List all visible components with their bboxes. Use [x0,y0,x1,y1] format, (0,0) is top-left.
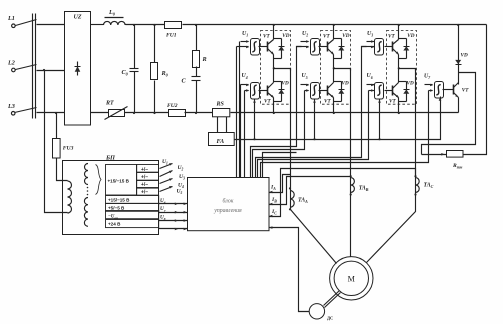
transistor VT lower leg 4 [264,69,274,113]
driver U4 [251,83,260,100]
diode VD upper leg 1 [274,33,290,59]
inductor L0 [104,9,126,25]
wire bottom rail RT to FU2 [125,112,169,114]
driver U6 input arrows [367,84,375,92]
capacitor C snubber [182,67,201,113]
junction phase node leg 2 [333,67,335,69]
protection block FA [209,133,235,146]
driver U3 [375,39,384,56]
dashed module box leg 3 [387,31,417,105]
current transformer TAC [414,175,433,196]
svg-text:TAA: TAA [298,198,308,205]
driver U5 input arrows [301,84,310,92]
driver U4 input arrows [241,84,250,92]
supply line U7 to control block [159,206,188,213]
svg-text:FU1: FU1 [166,33,177,39]
diode VD brake [455,24,468,85]
thermistor RT [105,101,128,120]
diode VD lower leg 4 [274,81,289,102]
wire brake resistor to top rail [464,25,487,155]
svg-text:+5/−5 В: +5/−5 В [108,205,125,210]
svg-text:+15/−15 В: +15/−15 В [108,198,130,203]
wire phase output leg 1 [274,69,291,71]
transformer secondary winding lower [84,198,88,227]
brace secondary group [96,165,102,195]
input terminal L1 [7,15,15,28]
PSU box -Uop [106,211,159,220]
current transformer TAA [289,187,308,210]
svg-text:TAC: TAC [424,183,434,190]
junction top rail leg 1 [273,24,275,26]
junction phase node leg 3 [398,67,400,69]
dashed module box leg 2 [321,31,351,105]
wire gate U2 staircase [251,47,302,178]
wire phase A down [290,69,292,189]
wire FA output line [235,97,441,140]
svg-text:M: M [348,274,356,283]
PSU box +24V [106,220,159,228]
wire driver U7 to gate [443,89,454,91]
wire phase output leg 3 [399,69,416,71]
junction FA line leg3 [378,138,380,140]
wire phase B to motor [350,195,352,257]
svg-text:+24 В: +24 В [108,221,121,226]
wire L3 to UZ [37,112,65,114]
svg-text:ДС: ДС [327,316,333,321]
wire phase C to motor [367,195,416,263]
fuse FU1 [165,22,182,39]
driver U7 brake [435,82,444,99]
supply line U6 to control block [159,198,188,205]
wire DS feedback to control block [269,226,310,311]
driver U6 [375,83,384,100]
shunt RS [213,102,230,117]
svg-text:FA: FA [217,138,225,145]
svg-text:+15/−15 В: +15/−15 В [108,179,130,184]
junction bottom rail leg 5 [333,112,335,114]
driver U7 input arrows [425,84,434,92]
rectifier UZ [65,12,91,126]
wire driver U5 to gate [319,90,328,92]
wire gate U1 [236,47,238,178]
dashed module box leg 1 [261,31,291,105]
svg-text:VD: VD [407,33,414,39]
driver U1 [251,39,260,56]
wire gate U7 staircase [261,91,429,178]
svg-text:VT: VT [324,98,331,104]
wire UZ minus output [91,112,109,114]
wires RS to FA [218,117,227,133]
junction FA line leg2 [313,138,315,140]
driver U3 input arrows [362,40,375,48]
wire sense IB [269,177,351,206]
wire top rail FU1 to inverter [183,24,487,26]
wire gate U6 staircase [258,91,369,178]
PSU +/- terminal boxes [137,165,159,196]
arrow FA line into driver U7 [439,98,442,101]
wire phase B down [350,69,352,177]
transistor VT lower leg 6 [389,69,399,113]
svg-text:RT: RT [105,101,114,107]
wire phase C down [415,69,417,177]
wire driver U2 to gate [319,46,328,48]
transistor VT upper leg 1 [263,25,274,69]
wire driver U5 bottom to FA line [313,99,316,140]
svg-text:+/−: +/− [141,167,148,173]
wire L1 to UZ [37,24,65,26]
junction R snubber top [195,24,197,26]
diode VD lower leg 6 [399,81,414,102]
junction L2 tap [43,69,45,71]
svg-text:R: R [202,56,207,63]
wire UZ plus output [91,24,104,26]
junction bottom rail leg 6 [398,112,400,114]
wire driver U1 to gate [259,46,268,48]
PSU box +15/-15V row2 [106,196,159,204]
svg-text:VT: VT [389,98,396,104]
wire driver U6 to gate [385,90,393,92]
svg-text:+/−: +/− [141,174,148,180]
svg-text:VT: VT [323,33,330,39]
wire gate U3 staircase [256,47,367,178]
driver U5 [311,83,320,100]
svg-text:VD: VD [407,81,414,87]
junction FA line leg1 [253,138,255,140]
wire gate U5 staircase [253,91,305,178]
svg-text:VD: VD [461,53,468,59]
supply line U8 to control block [159,215,188,222]
speed sensor DS [309,304,333,321]
junction C0 top [133,24,135,26]
diode VD upper leg 2 [334,33,350,59]
wire sense IA [269,175,291,194]
diode VD upper leg 3 [399,33,415,59]
transformer secondary dots [87,187,89,196]
switch SA pole 3 [15,108,37,113]
wire staircase extra [263,153,297,178]
current transformer TAB [350,175,369,196]
wire driver U4 bottom to FA line [253,99,256,140]
driver U2 input arrows [297,40,310,48]
svg-text:L1: L1 [7,15,15,22]
junction top rail leg 3 [398,24,400,26]
transistor VT upper leg 3 [388,25,399,69]
svg-text:VT: VT [388,33,395,39]
control block [188,178,270,231]
svg-text:блок: блок [223,198,234,205]
resistor R0 [151,25,169,113]
svg-text:FU2: FU2 [167,103,178,109]
wire sense IC [269,169,416,218]
transistor VT brake [454,83,470,113]
resistor R snubber [193,25,207,68]
transformer primary winding [68,181,72,213]
transformer secondary winding upper [85,164,88,185]
wire brake node to resistor branch [422,73,476,155]
junction L3 tap [55,112,57,114]
switch SA pole 1 [16,20,37,26]
driver U1 input arrows [237,40,250,48]
junction bottom rail leg 4 [273,112,275,114]
wire phase A to motor [291,210,337,264]
diode symbol inside UZ [75,62,81,76]
junction phase node leg 1 [273,67,275,69]
wire top rail L0 to FU1 [126,24,165,26]
svg-text:UZ: UZ [74,14,82,20]
wire driver U4 to gate [259,90,268,92]
junction R0 bottom [153,112,155,114]
svg-text:RS: RS [216,102,225,108]
wire gate U1 return [239,42,241,178]
wire gate U4 return [240,85,242,178]
brake resistor Rtm [447,151,464,170]
power supply block BP [63,154,159,234]
wire L2 to UZ [37,70,65,72]
transistor VT lower leg 5 [324,69,334,113]
svg-text:VD: VD [342,33,349,39]
svg-text:L2: L2 [7,60,15,67]
wire L2 to transformer primary [45,71,68,213]
wire FU3 to transformer primary [57,158,68,181]
wire phase output leg 2 [334,69,351,71]
driver U2 [311,39,320,56]
wire bottom rail RS to inverter [231,112,459,114]
PSU box +5/-5V [106,204,159,212]
svg-text:VT: VT [263,33,270,39]
svg-text:VT: VT [264,98,271,104]
junction R0 top [153,24,155,26]
motor M [330,257,373,300]
wire driver U3 to gate [385,46,393,48]
fuse FU3 [53,113,74,159]
input terminal L3 [7,103,15,115]
junction top rail leg 2 [333,24,335,26]
svg-text:VD: VD [282,81,289,87]
wire driver U6 bottom to FA line [378,99,381,140]
PSU box +15/-15V main [106,165,137,196]
wire arrow into brake resistor [422,153,447,156]
supply line to control block bottom [159,228,188,231]
junction C snubber bottom [195,112,197,114]
svg-text:FU3: FU3 [63,146,74,152]
capacitor C0 [122,25,139,113]
transistor VT upper leg 2 [323,25,334,69]
shaft to speed sensor [324,291,341,308]
wire bottom rail FU2 to RS [185,112,213,114]
svg-text:L3: L3 [7,103,15,110]
diode VD lower leg 5 [334,81,349,102]
svg-text:TAB: TAB [359,186,369,193]
input terminal L2 [7,60,15,72]
switch SA pole 2 [16,65,37,70]
svg-text:БП: БП [105,154,116,161]
supply arrows to drivers U1-U5 [160,159,186,195]
svg-text:+/−: +/− [141,190,148,196]
svg-text:VD: VD [282,33,289,39]
fuse FU2 [167,103,186,116]
junction C0 bottom [133,112,135,114]
svg-text:VT: VT [462,88,469,94]
svg-text:управления: управления [213,208,242,214]
wire gate U4 [244,91,246,178]
svg-text:VD: VD [342,81,349,87]
switch linkage bars [33,14,36,119]
